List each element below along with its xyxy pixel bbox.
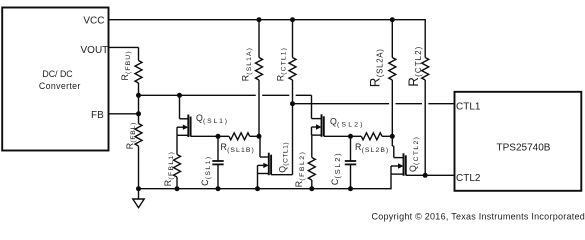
wire to R(SL2B) (351, 135, 362, 137)
svg-text:CTL1: CTL1 (456, 101, 481, 112)
resistor R(FBL) (135, 124, 142, 147)
wire FB pin (109, 113, 139, 115)
node gnd C(SL1) (216, 186, 221, 191)
svg-text:Copyright © 2016, Texas Instru: Copyright © 2016, Texas Instruments Inco… (372, 212, 585, 222)
wire node to Q(CTL2) drain (391, 136, 393, 146)
wire Q(SL2) source to R(FBL2) (311, 135, 313, 157)
transistor Q(CTL1) (259, 136, 261, 157)
node FB/R(FBU) (136, 93, 141, 98)
wire Q(SL1) source to R(FBL1) (176, 135, 178, 154)
node R(SL2B)/R(SL2A)/Q(CTL2) (390, 134, 395, 139)
node gnd C(SL2) (348, 186, 353, 191)
wire VCC rail (109, 19, 426, 21)
wire CTL1 (293, 103, 390, 105)
capacitor C(SL2) (350, 136, 352, 161)
wire CTL2 to box (425, 174, 454, 176)
node gnd Q(CTL1) (255, 186, 260, 191)
node gnd R(FBL) (136, 186, 141, 191)
wire VOUT stub (109, 46, 139, 48)
DC/DC converter box (2, 8, 108, 151)
resistor R(SL2B) (361, 133, 382, 140)
transistor Q(SL2) (312, 118, 322, 120)
node C(SL1)/gate (216, 134, 221, 139)
wire Q(SL2) gate lead (324, 135, 351, 137)
resistor R(FBL2) (308, 158, 315, 181)
transistor Q(CTL2) (394, 157, 404, 159)
svg-text:TPS25740B: TPS25740B (497, 142, 551, 153)
ground symbol (138, 189, 140, 199)
transistor Q(SL1) (179, 95, 181, 119)
TPS25740B box (455, 92, 582, 191)
node CTL1 (290, 101, 295, 106)
node CTL2 (423, 173, 428, 178)
wire Q(CTL2) gate to CTL2 (406, 174, 425, 176)
node FB pin (136, 111, 141, 116)
wire Q(CTL1) gate to CTL1 (271, 174, 292, 176)
resistor R(SL1B) (229, 133, 250, 140)
resistor R(SL1A) (258, 20, 260, 58)
resistor R(CTL2) (422, 58, 429, 81)
svg-text:Converter: Converter (39, 81, 81, 91)
wire R(CTL2) top drop (424, 19, 426, 58)
node C(SL2)/gate (348, 134, 353, 139)
node gnd R(FBL1) (175, 186, 180, 191)
resistor R(FBU) (135, 61, 142, 84)
wire FB line drop to Q(SL2) drain (311, 95, 313, 118)
wire to R(SL1B) (218, 135, 229, 137)
wire R(FBU) bottom (138, 83, 140, 95)
wire Q(CTL2) source to gnd rail (390, 174, 392, 189)
node VCC/R(SL1A) (257, 17, 262, 22)
svg-text:VOUT: VOUT (81, 45, 109, 56)
node gnd R(FBL2) (309, 186, 314, 191)
resistor R(SL2A) (391, 20, 393, 58)
wire Q(SL1) gate lead (191, 135, 218, 137)
wire ground rail (139, 188, 392, 190)
node FB line / Q(SL1) drain (177, 93, 182, 98)
node R(SL1B)/R(SL1A)/Q(CTL1) (257, 134, 262, 139)
svg-text:VCC: VCC (83, 15, 104, 26)
resistor R(FBL1) (174, 155, 181, 178)
wire FB node line (139, 94, 256, 96)
node VCC/R(SL2A) (390, 17, 395, 22)
svg-text:DC/ DC: DC/ DC (42, 69, 73, 79)
node VCC/R(CTL1) (290, 17, 295, 22)
capacitor C(SL1) (217, 136, 219, 161)
svg-text:CTL2: CTL2 (456, 173, 481, 184)
resistor R(CTL1) (292, 20, 294, 58)
svg-text:FB: FB (91, 110, 104, 121)
